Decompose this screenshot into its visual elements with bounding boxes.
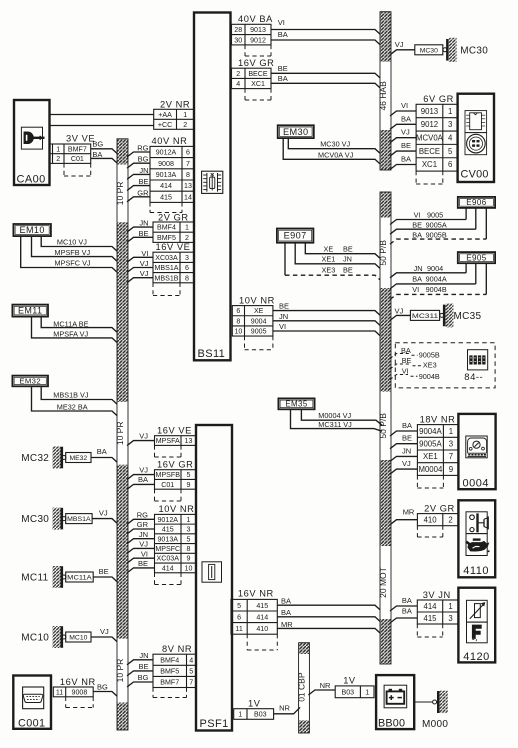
dashed extension PSF1 16V NR: [246, 634, 248, 650]
svg-text:9012A: 9012A: [157, 516, 178, 524]
svg-text:BE: BE: [278, 64, 288, 73]
svg-text:VJ: VJ: [395, 307, 404, 316]
svg-text:C001: C001: [18, 718, 45, 730]
svg-text:XC03A: XC03A: [155, 254, 178, 262]
connector 1V at BB00: [335, 676, 374, 698]
dashed extension 6V GR: [415, 171, 417, 184]
svg-text:MC35: MC35: [454, 311, 482, 322]
dashed extension 3V JN: [416, 624, 418, 637]
fuse box PSF1: [196, 425, 232, 731]
fuel gauge icon in 4120: [467, 622, 488, 643]
svg-text:415: 415: [162, 526, 174, 534]
svg-text:50 P/B: 50 P/B: [378, 413, 388, 439]
svg-text:CV00: CV00: [461, 169, 489, 181]
svg-text:9005: 9005: [251, 328, 267, 336]
svg-text:410: 410: [256, 625, 268, 633]
svg-text:9013: 9013: [250, 26, 266, 34]
svg-text:9012A: 9012A: [156, 149, 177, 157]
svg-text:RG: RG: [137, 511, 148, 520]
svg-text:9013: 9013: [421, 107, 438, 116]
svg-text:BMF4: BMF4: [160, 656, 179, 664]
svg-text:CA00: CA00: [17, 174, 46, 186]
svg-text:40V NR: 40V NR: [152, 136, 188, 146]
svg-text:JN: JN: [139, 219, 148, 228]
component CV00 display unit: [458, 94, 494, 182]
svg-text:84--: 84--: [464, 372, 483, 383]
svg-text:BMF5: BMF5: [157, 234, 176, 242]
component 4110 oil pressure switch: [458, 500, 495, 577]
svg-text:EM35: EM35: [285, 400, 307, 409]
svg-text:XE1: XE1: [423, 452, 438, 461]
svg-text:VJ: VJ: [139, 540, 148, 549]
svg-text:BE: BE: [343, 266, 353, 275]
svg-text:BA: BA: [281, 608, 291, 617]
svg-text:BE: BE: [402, 434, 412, 443]
svg-text:5: 5: [237, 602, 241, 610]
svg-text:BE: BE: [279, 302, 289, 311]
svg-text:BE: BE: [138, 559, 148, 568]
svg-text:14: 14: [184, 193, 192, 201]
svg-text:9012: 9012: [250, 36, 266, 44]
svg-text:BECE: BECE: [419, 147, 440, 156]
svg-text:9004B: 9004B: [426, 285, 447, 294]
svg-text:MC10 VJ: MC10 VJ: [57, 238, 87, 247]
digit display icon in 84--: [468, 350, 488, 370]
svg-text:28: 28: [234, 26, 242, 34]
svg-text:XC1: XC1: [422, 160, 437, 169]
dashed extension PSF1 16V GR: [154, 489, 156, 501]
svg-text:18V NR: 18V NR: [420, 414, 456, 424]
dashed extension 18V NR: [416, 475, 418, 488]
svg-text:MBS1B: MBS1B: [154, 274, 178, 282]
svg-text:1: 1: [448, 107, 452, 116]
svg-text:9005B: 9005B: [426, 230, 447, 239]
component 4120 fuel gauge sender: [458, 588, 495, 664]
svg-text:XE3: XE3: [322, 266, 336, 275]
svg-text:ME32 BA: ME32 BA: [57, 402, 88, 411]
svg-text:3V VE: 3V VE: [66, 134, 95, 144]
svg-text:BA: BA: [97, 447, 107, 456]
svg-text:VJ: VJ: [139, 432, 148, 441]
splice EM10: [13, 224, 51, 236]
svg-text:3: 3: [448, 120, 452, 129]
harness bar 46 HAB: [378, 12, 392, 170]
svg-text:XE3: XE3: [423, 361, 437, 370]
svg-text:BA: BA: [138, 475, 148, 484]
svg-text:3: 3: [187, 526, 191, 534]
connector 10V NR on BS11 right: [232, 295, 275, 336]
svg-text:1V: 1V: [343, 676, 356, 686]
svg-text:GR: GR: [137, 188, 149, 197]
svg-text:6: 6: [185, 264, 189, 272]
svg-text:9012: 9012: [421, 120, 438, 129]
svg-text:MC10: MC10: [21, 632, 49, 643]
svg-text:VJ: VJ: [395, 40, 404, 49]
svg-text:E906: E906: [466, 198, 486, 207]
splice E905: [458, 252, 495, 263]
svg-text:C01: C01: [71, 155, 84, 163]
svg-text:1: 1: [365, 688, 369, 696]
svg-text:13: 13: [184, 182, 192, 190]
svg-text:10 PR: 10 PR: [115, 659, 125, 683]
fuse icon in BS11: [202, 171, 223, 193]
svg-text:9008: 9008: [72, 688, 88, 696]
svg-text:XE: XE: [254, 307, 264, 315]
dashed extension 10V NR BS11: [244, 336, 246, 350]
dashed extension 16V GR top: [244, 89, 246, 100]
svg-text:VJ: VJ: [99, 508, 108, 517]
dashed extension 16V VE: [152, 283, 154, 296]
svg-text:BG: BG: [97, 683, 108, 692]
harness bar 01 CBP: [297, 643, 310, 733]
connector 1V on PSF1 bottom: [234, 699, 274, 720]
svg-text:BA: BA: [401, 155, 411, 164]
svg-text:M0004: M0004: [418, 465, 443, 474]
svg-text:8: 8: [187, 545, 191, 553]
svg-text:PSF1: PSF1: [200, 718, 229, 730]
svg-text:2: 2: [448, 515, 452, 524]
svg-text:2V GR: 2V GR: [424, 503, 455, 513]
svg-text:5: 5: [448, 147, 453, 156]
svg-text:XC1: XC1: [251, 80, 265, 88]
svg-text:10 PR: 10 PR: [115, 182, 125, 206]
ground M000: [422, 691, 448, 731]
svg-text:JN: JN: [414, 264, 423, 273]
connector 16V NR on PSF1 right: [231, 589, 277, 635]
svg-text:410: 410: [424, 515, 438, 524]
ground MC35: [410, 303, 481, 327]
svg-text:16V NR: 16V NR: [60, 677, 96, 687]
svg-text:2: 2: [185, 234, 189, 242]
svg-text:1: 1: [238, 711, 242, 719]
svg-text:BA: BA: [402, 607, 412, 616]
svg-text:4: 4: [448, 134, 453, 143]
svg-text:11: 11: [56, 688, 63, 696]
svg-text:MPSFB: MPSFB: [156, 471, 181, 479]
svg-text:1: 1: [183, 111, 187, 119]
svg-text:BS11: BS11: [198, 348, 226, 360]
svg-text:MBS1A: MBS1A: [154, 264, 178, 272]
svg-text:MC11A: MC11A: [67, 575, 92, 582]
svg-text:414: 414: [423, 602, 437, 611]
connector 10V NR on PSF1: [155, 504, 197, 573]
svg-text:9004: 9004: [251, 317, 267, 325]
svg-text:10V NR: 10V NR: [239, 295, 275, 305]
connector 2V GR on 4110: [417, 503, 458, 525]
svg-text:16V VE: 16V VE: [157, 426, 192, 436]
svg-text:3: 3: [448, 614, 452, 623]
connector 16V GR on BS11 top: [232, 58, 275, 89]
dashed stubs 50P/B to 84--: [390, 354, 409, 359]
svg-text:9013A: 9013A: [157, 535, 178, 543]
svg-text:BG: BG: [92, 139, 103, 148]
svg-text:9004: 9004: [427, 264, 443, 273]
svg-text:B03: B03: [341, 688, 354, 696]
svg-text:VJ: VJ: [100, 627, 109, 636]
svg-text:4: 4: [236, 80, 240, 88]
svg-text:50 P/B: 50 P/B: [378, 240, 388, 266]
svg-text:9008: 9008: [158, 160, 174, 168]
svg-text:+AA: +AA: [158, 111, 172, 119]
svg-text:415: 415: [160, 193, 172, 201]
svg-text:BMF5: BMF5: [160, 667, 179, 675]
svg-text:10V NR: 10V NR: [159, 504, 195, 514]
option box 84--: [395, 343, 495, 388]
svg-text:BG: BG: [138, 673, 149, 682]
svg-text:BA: BA: [412, 230, 422, 239]
svg-text:MCV0A: MCV0A: [416, 134, 444, 143]
component CA00 ignition switch: [14, 100, 50, 186]
splice EM32: [12, 376, 48, 387]
svg-text:6: 6: [236, 307, 240, 315]
svg-text:414: 414: [162, 564, 174, 572]
svg-text:MCV0A VJ: MCV0A VJ: [318, 151, 354, 160]
svg-text:MC10: MC10: [69, 635, 87, 642]
gauge icon in 0004: [466, 436, 487, 458]
svg-text:MBS1B VJ: MBS1B VJ: [53, 390, 89, 399]
svg-text:1: 1: [448, 602, 452, 611]
ground MC10: [21, 626, 91, 648]
splice E906: [458, 197, 495, 208]
svg-text:MPSFB VJ: MPSFB VJ: [55, 248, 91, 257]
svg-text:BE: BE: [138, 177, 148, 186]
svg-text:5: 5: [189, 667, 193, 675]
connector 40V BA on BS11: [232, 14, 274, 45]
svg-text:10: 10: [234, 328, 242, 336]
svg-text:+CC: +CC: [158, 121, 172, 129]
wire CA00 to BS11 +AA: [50, 114, 154, 116]
wire CA00 to BS11 +CC: [50, 125, 154, 127]
connector 2V GR on BS11: [153, 212, 194, 242]
connector 3V VE on CA00: [53, 134, 96, 164]
oil can icon in 4110: [466, 534, 490, 556]
svg-text:VJ: VJ: [402, 459, 411, 468]
svg-text:2V NR: 2V NR: [160, 100, 190, 110]
svg-text:XE1: XE1: [322, 255, 336, 264]
splice EM35: [278, 398, 314, 409]
svg-text:EM30: EM30: [283, 127, 309, 137]
key icon in CA00: [21, 127, 44, 149]
svg-text:VI: VI: [414, 210, 421, 219]
svg-text:1V: 1V: [248, 699, 261, 709]
splice E907: [277, 229, 314, 243]
svg-text:9004A: 9004A: [426, 275, 447, 284]
svg-text:9004A: 9004A: [419, 427, 442, 436]
svg-text:415: 415: [256, 602, 268, 610]
svg-text:2: 2: [183, 121, 187, 129]
harness bar 50 P/B / 20 MOT: [378, 192, 392, 664]
connector 16V VE on BS11: [153, 242, 194, 283]
svg-text:VJ: VJ: [139, 465, 148, 474]
svg-text:MR: MR: [403, 508, 415, 517]
svg-text:30: 30: [234, 36, 242, 44]
svg-text:NR: NR: [320, 681, 331, 690]
svg-text:VI: VI: [141, 249, 148, 258]
svg-text:E907: E907: [284, 231, 307, 241]
dashed extension PSF1 16V VE: [154, 445, 156, 457]
ground MC30 left: [21, 508, 92, 530]
svg-text:C01: C01: [161, 481, 174, 489]
splice EM11: [12, 305, 48, 317]
svg-text:01 CBP: 01 CBP: [297, 672, 307, 702]
svg-text:BE: BE: [138, 662, 148, 671]
component 0004 instrument cluster: [458, 414, 495, 490]
wire BB00 to M000: [414, 701, 432, 703]
svg-text:VI: VI: [141, 549, 148, 558]
svg-text:B03: B03: [254, 711, 267, 719]
svg-text:6V GR: 6V GR: [423, 94, 454, 104]
svg-text:BMF4: BMF4: [157, 224, 176, 232]
svg-text:JN: JN: [343, 255, 352, 264]
battery BB00: [376, 675, 414, 730]
svg-text:5: 5: [187, 535, 191, 543]
svg-text:NR: NR: [279, 704, 290, 713]
svg-text:MC30: MC30: [21, 514, 49, 525]
svg-text:6: 6: [448, 160, 452, 169]
connector 6V GR on CV00: [416, 94, 458, 171]
svg-text:VJ: VJ: [140, 259, 149, 268]
svg-text:8: 8: [185, 274, 189, 282]
battery icon in BB00: [384, 685, 407, 708]
svg-text:EM10: EM10: [19, 225, 44, 235]
svg-text:BA: BA: [281, 596, 291, 605]
svg-text:1: 1: [187, 516, 191, 524]
svg-text:6: 6: [237, 613, 241, 621]
svg-text:M0004 VJ: M0004 VJ: [318, 411, 351, 420]
dashed extension C001: [65, 697, 67, 708]
svg-text:JN: JN: [139, 651, 148, 660]
svg-text:BE: BE: [99, 567, 109, 576]
svg-text:9: 9: [449, 465, 453, 474]
svg-text:415: 415: [423, 614, 437, 623]
svg-text:BE: BE: [138, 229, 148, 238]
svg-text:1: 1: [449, 427, 453, 436]
svg-text:16V VE: 16V VE: [156, 242, 191, 252]
svg-text:BA: BA: [412, 275, 422, 284]
svg-text:46 HAB: 46 HAB: [378, 81, 388, 111]
svg-text:9005A: 9005A: [419, 439, 442, 448]
svg-text:VJ: VJ: [401, 128, 410, 137]
svg-text:8: 8: [186, 171, 190, 179]
dashed extension 40V NR: [149, 202, 151, 212]
svg-text:RG: RG: [137, 144, 148, 153]
svg-text:VI: VI: [279, 322, 286, 331]
svg-text:E905: E905: [466, 253, 487, 262]
svg-text:MC30: MC30: [420, 47, 438, 54]
connector 16V VE on PSF1: [155, 426, 197, 446]
svg-text:9: 9: [187, 481, 191, 489]
svg-text:VI: VI: [401, 101, 408, 110]
svg-text:VI: VI: [278, 18, 285, 27]
svg-text:11: 11: [235, 625, 242, 633]
svg-text:7: 7: [449, 452, 453, 461]
connector C001: [13, 676, 51, 730]
svg-text:BA: BA: [401, 114, 411, 123]
svg-text:BMF7: BMF7: [160, 679, 179, 687]
svg-text:9004B: 9004B: [419, 372, 440, 381]
svg-text:M000: M000: [422, 719, 448, 730]
svg-text:XE: XE: [324, 244, 334, 253]
svg-text:BA: BA: [278, 30, 288, 39]
svg-text:VJ: VJ: [140, 269, 149, 278]
connector 40V NR on BS11: [150, 136, 194, 202]
svg-text:9005: 9005: [427, 210, 443, 219]
svg-text:BE: BE: [412, 221, 422, 230]
svg-text:MC311 VJ: MC311 VJ: [318, 420, 352, 429]
row stubs 3V VE to CA00: [50, 143, 53, 145]
svg-text:9013A: 9013A: [156, 171, 177, 179]
svg-text:8: 8: [236, 317, 240, 325]
round connector icon in CV00: [465, 133, 487, 155]
dashed extension PSF1 10V NR: [154, 573, 156, 585]
svg-text:MR: MR: [281, 620, 293, 629]
svg-text:BA: BA: [402, 596, 412, 605]
svg-text:3: 3: [449, 439, 453, 448]
svg-text:10: 10: [185, 564, 193, 572]
svg-text:3V JN: 3V JN: [423, 590, 451, 600]
svg-text:414: 414: [256, 613, 268, 621]
svg-text:1: 1: [56, 145, 60, 153]
svg-text:0004: 0004: [463, 478, 489, 490]
dashed extension 40V BA: [244, 45, 246, 56]
svg-text:7: 7: [189, 679, 193, 687]
svg-text:4120: 4120: [463, 651, 489, 663]
svg-text:MPSFC: MPSFC: [155, 545, 180, 553]
svg-text:JN: JN: [279, 312, 288, 321]
svg-text:ME32: ME32: [69, 455, 87, 462]
svg-text:BA: BA: [402, 421, 412, 430]
dashed extension PSF1 8V NR: [152, 688, 154, 698]
svg-text:6: 6: [186, 149, 190, 157]
connector 2V NR on BS11: [154, 100, 194, 130]
svg-text:MPSFC VJ: MPSFC VJ: [55, 258, 91, 267]
svg-text:16V GR: 16V GR: [157, 460, 193, 470]
ECU BS11: [194, 13, 231, 361]
svg-text:10 PR: 10 PR: [115, 422, 125, 446]
svg-text:MPSFA: MPSFA: [156, 437, 180, 445]
pressure switch icon in 4110: [466, 512, 488, 534]
svg-text:9005A: 9005A: [426, 221, 447, 230]
svg-text:MC32: MC32: [21, 453, 49, 464]
svg-text:MC30: MC30: [460, 45, 488, 56]
svg-text:4110: 4110: [463, 565, 489, 577]
svg-text:EM11: EM11: [18, 306, 42, 316]
svg-text:2V GR: 2V GR: [158, 212, 189, 222]
svg-text:5: 5: [187, 471, 191, 479]
svg-text:EM32: EM32: [19, 377, 41, 386]
fuse icon in PSF1: [202, 562, 222, 582]
connector 16V NR on C001: [53, 677, 95, 697]
variable resistor icon in 4120: [467, 600, 488, 622]
svg-text:20 MOT: 20 MOT: [378, 567, 388, 598]
svg-text:1: 1: [185, 224, 189, 232]
svg-text:MBS1A: MBS1A: [67, 516, 91, 523]
svg-text:BE: BE: [401, 141, 411, 150]
connector 16V GR on PSF1: [155, 460, 197, 490]
ground MC30 right: [415, 38, 488, 62]
svg-text:MPSFA VJ: MPSFA VJ: [53, 330, 88, 339]
svg-text:BMF7: BMF7: [68, 145, 87, 153]
dashed extension 3V VE: [63, 163, 65, 176]
svg-text:JN: JN: [402, 446, 411, 455]
svg-text:BB00: BB00: [378, 718, 405, 730]
svg-text:8V NR: 8V NR: [162, 644, 192, 654]
svg-text:3: 3: [185, 254, 189, 262]
dashed extension 2V GR 4110: [416, 526, 418, 537]
svg-text:4: 4: [189, 656, 193, 664]
connector 18V NR on 0004: [417, 414, 458, 475]
svg-text:2: 2: [236, 70, 240, 78]
